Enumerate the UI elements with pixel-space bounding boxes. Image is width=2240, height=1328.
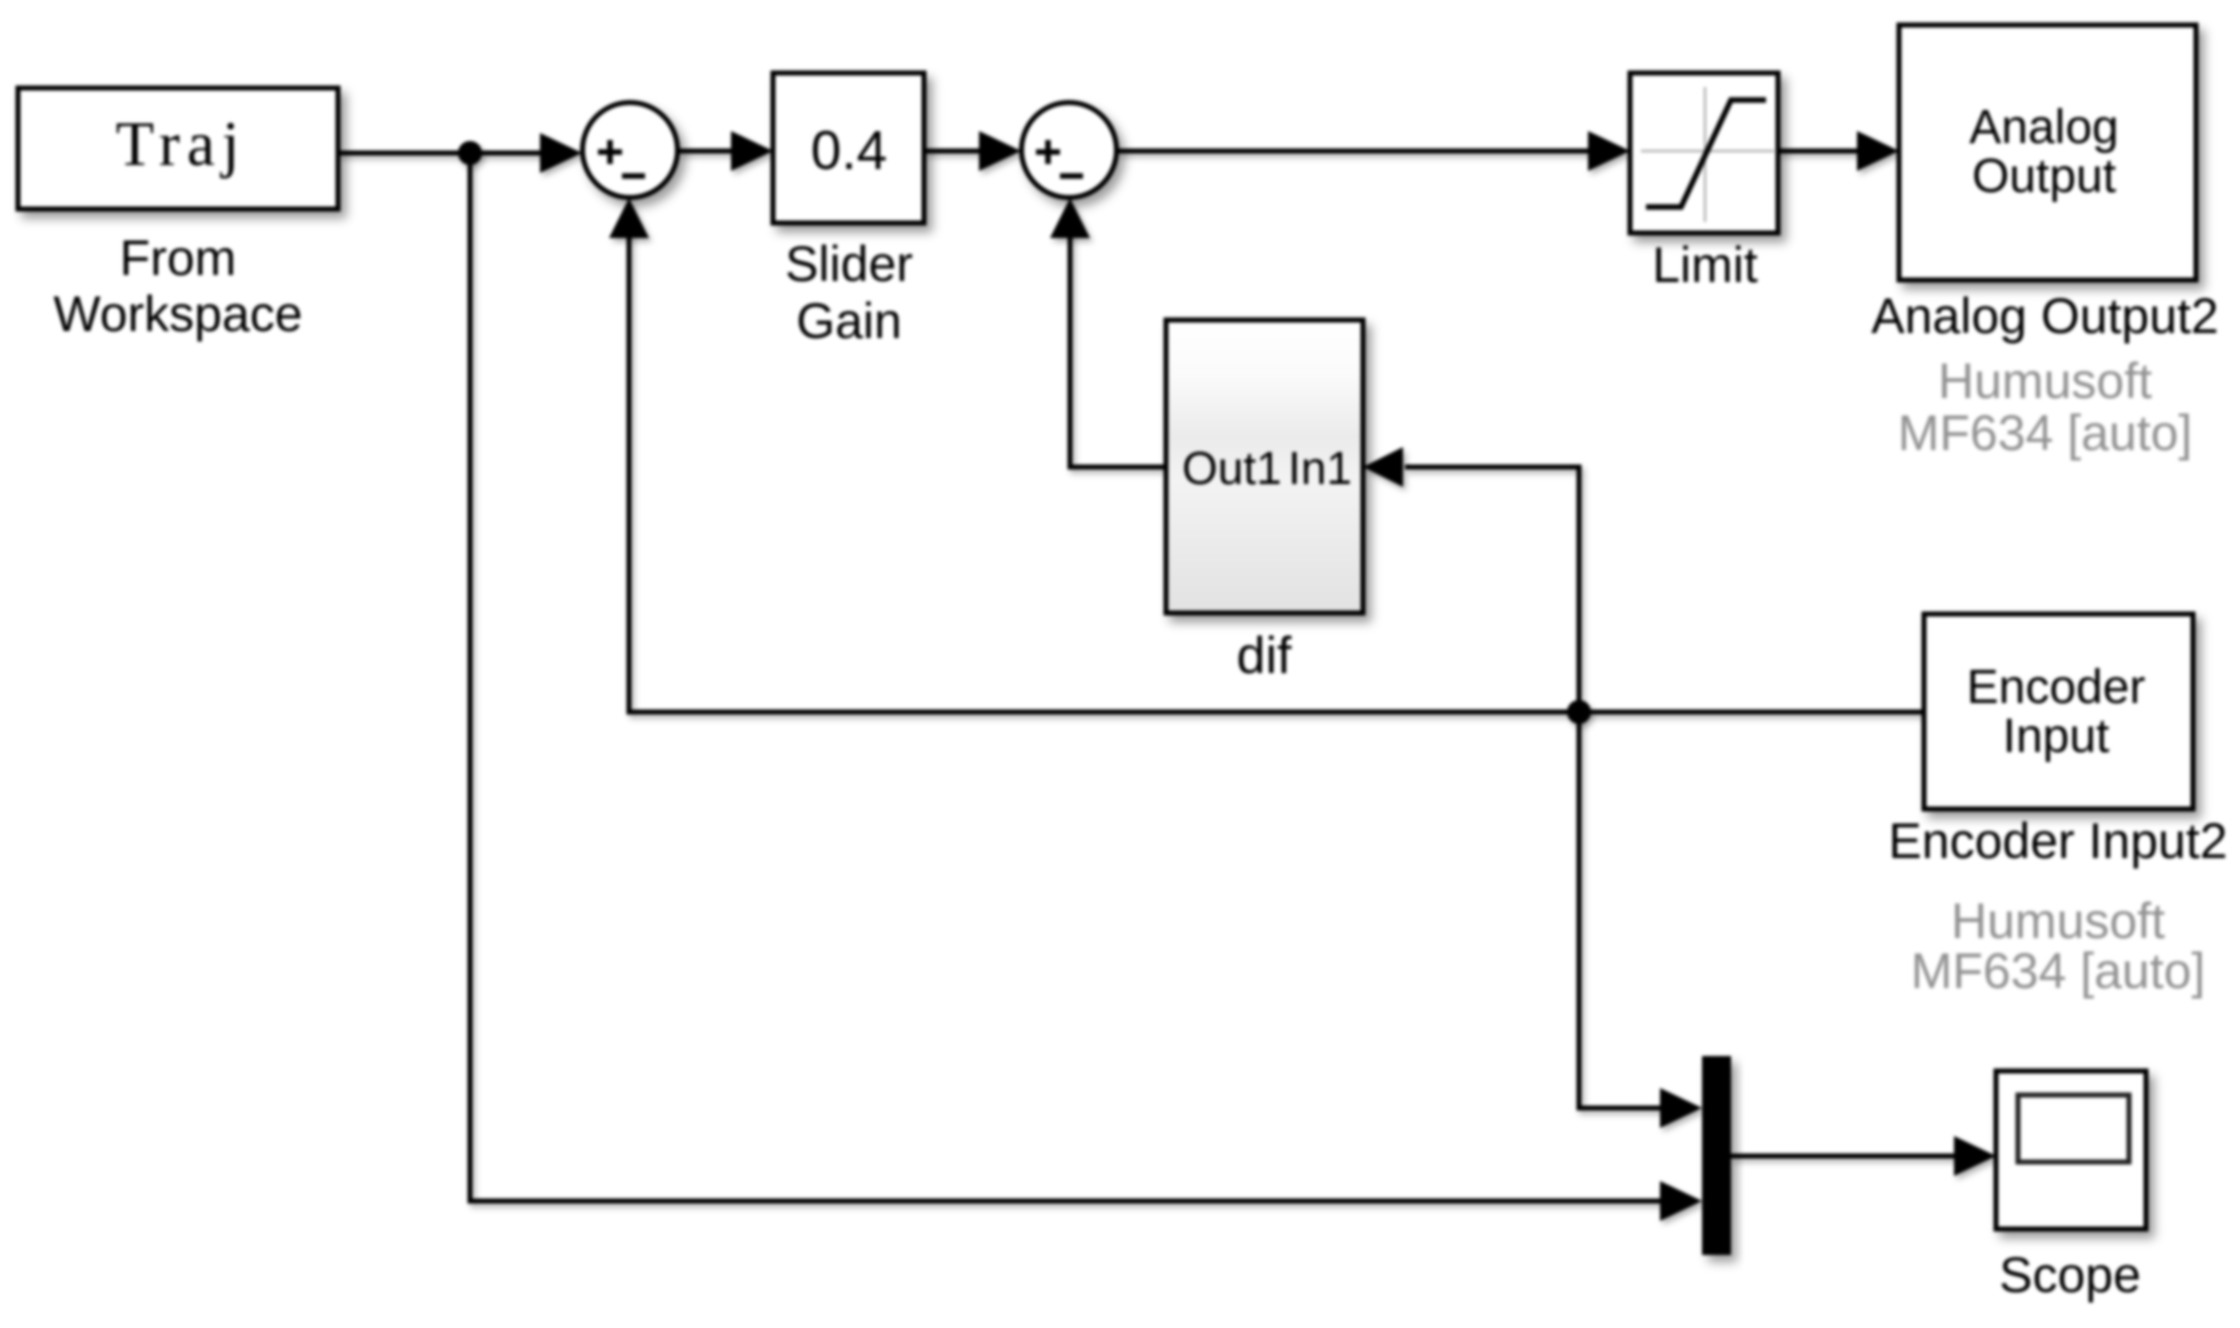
svg-text:Humusoft: Humusoft	[1938, 353, 2152, 409]
svg-text:From: From	[120, 230, 237, 286]
svg-text:Gain: Gain	[796, 293, 902, 349]
svg-text:MF634 [auto]: MF634 [auto]	[1911, 943, 2206, 999]
svg-text:Encoder: Encoder	[1967, 661, 2146, 714]
svg-text:dif: dif	[1237, 627, 1292, 685]
svg-text:Scope: Scope	[1999, 1247, 2141, 1303]
svg-text:Encoder Input2: Encoder Input2	[1888, 813, 2227, 869]
svg-text:Limit: Limit	[1652, 237, 1758, 293]
svg-text:Slider: Slider	[785, 236, 913, 292]
svg-text:Input: Input	[2003, 710, 2110, 763]
svg-text:0.4: 0.4	[811, 119, 887, 181]
svg-text:Humusoft: Humusoft	[1951, 893, 2165, 949]
svg-text:Out1: Out1	[1182, 442, 1282, 494]
svg-text:Analog: Analog	[1969, 101, 2118, 154]
svg-text:Traj: Traj	[116, 109, 247, 179]
svg-text:Workspace: Workspace	[53, 286, 302, 342]
svg-text:In1: In1	[1288, 442, 1352, 494]
svg-text:Analog Output2: Analog Output2	[1871, 288, 2219, 344]
svg-text:MF634 [auto]: MF634 [auto]	[1898, 405, 2193, 461]
svg-text:Output: Output	[1972, 150, 2116, 203]
